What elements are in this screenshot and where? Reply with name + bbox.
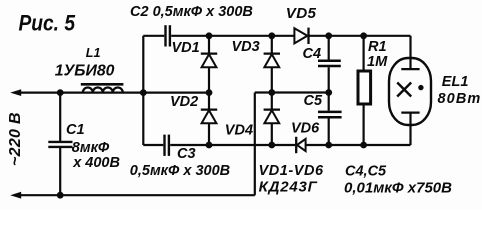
- svg-text:C3: C3: [177, 146, 196, 162]
- svg-text:VD3: VD3: [232, 39, 260, 55]
- svg-text:C4,C5: C4,C5: [345, 163, 387, 179]
- svg-text:С2 0,5мкФ х 300В: С2 0,5мкФ х 300В: [130, 4, 253, 20]
- svg-text:80Вт: 80Вт: [438, 91, 482, 107]
- svg-text:VD1-VD6: VD1-VD6: [259, 163, 324, 179]
- svg-text:1M: 1M: [367, 54, 388, 70]
- svg-text:VD1: VD1: [172, 40, 200, 56]
- svg-text:1УБИ80: 1УБИ80: [55, 62, 115, 79]
- svg-text:0,01мкФ х750В: 0,01мкФ х750В: [344, 180, 452, 197]
- svg-text:R1: R1: [368, 39, 387, 55]
- svg-text:VD5: VD5: [286, 5, 317, 22]
- svg-text:VD6: VD6: [291, 121, 320, 137]
- svg-text:0,5мкФ х 300В: 0,5мкФ х 300В: [130, 163, 230, 179]
- svg-text:х 400В: х 400В: [72, 155, 120, 171]
- svg-text:C5: C5: [304, 93, 323, 109]
- svg-text:VD2: VD2: [170, 94, 198, 110]
- svg-text:Рис. 5: Рис. 5: [19, 11, 76, 36]
- svg-text:EL1: EL1: [442, 74, 469, 90]
- svg-text:VD4: VD4: [225, 122, 253, 138]
- svg-text:8мкФ: 8мкФ: [72, 140, 110, 156]
- svg-text:~220 В: ~220 В: [7, 112, 24, 166]
- svg-text:C1: C1: [66, 122, 85, 138]
- svg-text:КД243Г: КД243Г: [259, 178, 318, 195]
- svg-text:L1: L1: [86, 46, 101, 60]
- svg-text:C4: C4: [303, 46, 322, 62]
